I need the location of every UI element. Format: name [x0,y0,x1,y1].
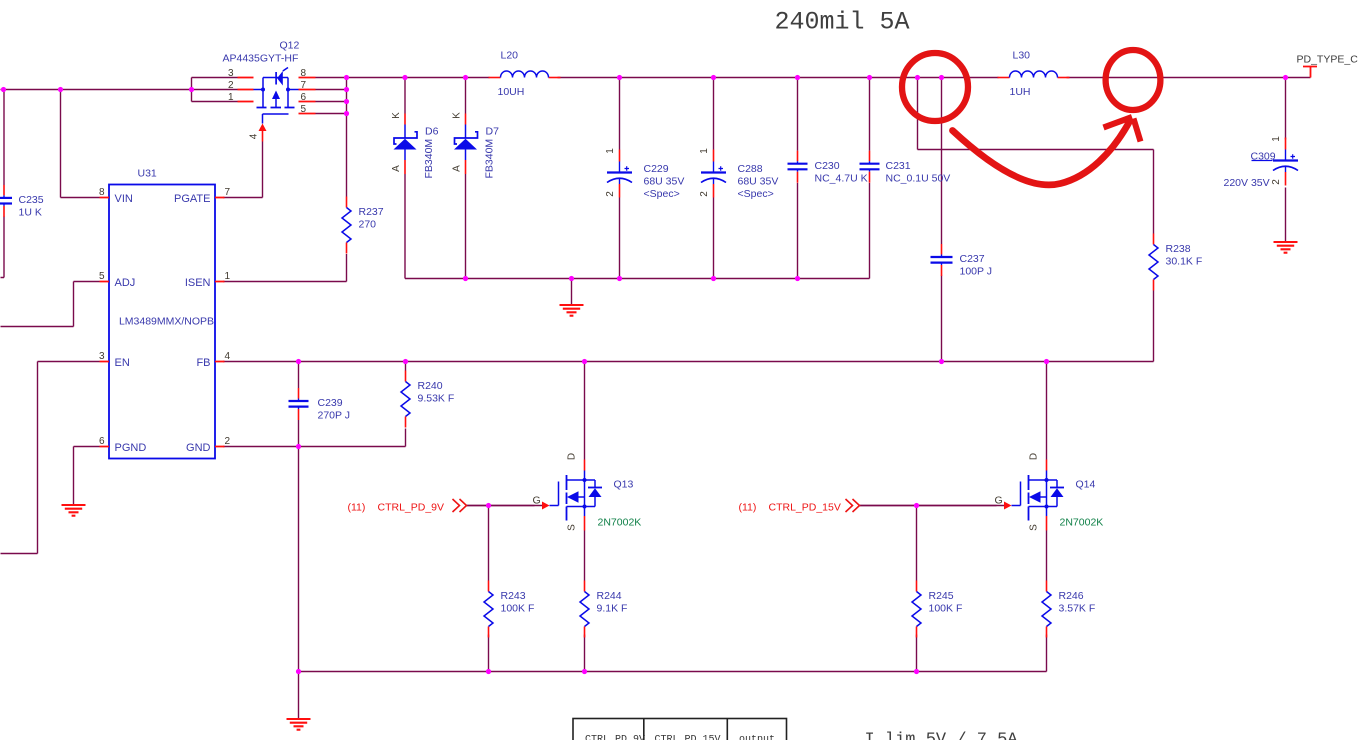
svg-text:68U 35V: 68U 35V [738,176,779,188]
resistor R244 9.1K F [580,581,627,638]
capacitor C309 220V 35V [1251,136,1299,186]
wire sense tap to R238 (node SW) [918,78,1154,150]
wire D6 column [404,78,406,279]
svg-text:C235: C235 [19,194,44,206]
svg-text:Q12: Q12 [280,40,300,52]
svg-text:ISEN: ISEN [185,277,211,289]
svg-text:FB: FB [196,357,210,369]
svg-text:R240: R240 [418,380,443,392]
svg-text:10UH: 10UH [498,86,525,98]
svg-text:D: D [1029,453,1040,460]
label 240mil 5A note [775,8,910,37]
wire Q13 drain riser [584,362,586,460]
wire ADJ exit left [1,282,100,327]
svg-text:2N7002K: 2N7002K [1060,517,1104,529]
svg-text:C231: C231 [886,160,911,172]
svg-text:5: 5 [301,104,307,115]
svg-text:3: 3 [99,351,105,362]
svg-text:G: G [995,495,1003,507]
svg-text:CTRL_PD_15V: CTRL_PD_15V [769,502,841,514]
wire GND line to R240 [223,446,406,448]
svg-text:9.53K F: 9.53K F [418,393,455,405]
wire CTRL_PD_15V gate net [860,506,997,581]
svg-text:R238: R238 [1166,243,1191,255]
wire D7 column [465,78,467,279]
svg-text:LM3489MMX/NOPB: LM3489MMX/NOPB [119,316,214,328]
svg-text:2: 2 [228,80,234,91]
svg-text:U31: U31 [138,168,157,180]
svg-text:270: 270 [359,219,377,231]
wire Q12 drain pin links [316,78,347,114]
svg-text:240mil 5A: 240mil 5A [775,8,910,37]
ground at output cap rail [560,305,584,316]
svg-text:4: 4 [249,133,260,139]
ground at PGND [62,505,86,516]
inductor L20 10UH [489,50,561,99]
wire ISEN to R237 [223,281,347,283]
svg-text:NC_4.7U K: NC_4.7U K [815,173,868,185]
wire CTRL_PD_9V gate net [467,506,535,581]
svg-text:D6: D6 [425,126,439,138]
wire C288 column [713,78,715,279]
svg-text:(11): (11) [739,502,757,514]
svg-text:3.57K F: 3.57K F [1059,603,1096,615]
svg-text:Q14: Q14 [1076,479,1096,491]
svg-text:1: 1 [228,92,234,103]
inductor L30 1UH [998,50,1070,99]
transistor Q14 2N7002K (NMOS) [860,453,1104,531]
svg-text:FB340M: FB340M [423,139,435,179]
wire Q12 drain bus down to R237 (x=346) [346,78,348,282]
svg-text:2: 2 [225,436,231,447]
node junctions input rail [1,87,194,92]
svg-text:PD_TYPE_C: PD_TYPE_C [1297,54,1359,66]
svg-text:K: K [452,112,463,119]
svg-text:CTRL_PD_9V: CTRL_PD_9V [585,735,645,740]
svg-text:PGND: PGND [115,442,147,454]
wire R244 bottom link [584,635,586,672]
node CTRL_PD_9V input (11) [348,499,467,514]
wire EN exit left [1,362,100,554]
svg-text:R244: R244 [597,590,622,602]
svg-text:7: 7 [225,187,231,198]
svg-text:8: 8 [99,187,105,198]
svg-text:CTRL_PD_15V: CTRL_PD_15V [655,735,721,740]
svg-text:VIN: VIN [115,193,133,205]
svg-text:EN: EN [115,357,130,369]
wire Q14 drain riser [1046,362,1048,460]
svg-text:FB340M: FB340M [484,139,496,179]
svg-text:ADJ: ADJ [115,277,136,289]
wire R245 bottom link [916,635,918,672]
wire top rail (y=77) [347,77,1311,79]
svg-text:A: A [391,165,402,172]
wire Q12 source pins tie (x=191) [192,78,238,102]
transistor Q12 AP4435GYT-HF (PMOS) [223,40,316,142]
svg-text:30.1K F: 30.1K F [1166,256,1203,268]
svg-text:7: 7 [301,80,307,91]
ground at bottom rail [287,719,311,730]
capacitor C239 270P J [289,388,351,422]
svg-text:D7: D7 [486,126,500,138]
resistor R238 30.1K F [1149,234,1202,291]
svg-text:L30: L30 [1013,50,1031,62]
svg-text:2: 2 [605,191,616,197]
wire R240 column [405,362,407,447]
node junctions FB net [296,359,1049,364]
svg-text:100P J: 100P J [960,266,993,278]
svg-text:270P J: 270P J [318,410,351,422]
svg-text:R245: R245 [929,590,954,602]
svg-text:4: 4 [225,351,231,362]
capacitor C235 1U K [0,185,44,219]
svg-text:(11): (11) [348,502,366,514]
node junctions Q12 drain bus [344,75,349,116]
truth table header [573,719,787,740]
svg-text:AP4435GYT-HF: AP4435GYT-HF [223,53,299,65]
svg-text:NC_0.1U 50V: NC_0.1U 50V [886,173,951,185]
svg-text:CTRL_PD_9V: CTRL_PD_9V [378,502,445,514]
node junctions gate nets [486,503,919,508]
node PD_TYPE_C output port [1297,54,1359,78]
svg-text:2N7002K: 2N7002K [598,517,642,529]
wire ground stub mid rail [571,279,573,305]
capacitor C229 68U 35V [605,148,684,200]
wire input rail left (y=89) [1,89,238,91]
svg-text:1: 1 [699,148,710,154]
svg-text:<Spec>: <Spec> [644,188,680,200]
diode D7 FB340M [452,112,500,179]
svg-text:6: 6 [99,436,105,447]
wire Q13 source to R244 [584,531,586,581]
wire R243 bottom link [488,635,490,672]
wire C229 column [619,78,621,279]
svg-text:PGATE: PGATE [174,193,210,205]
svg-text:1UH: 1UH [1010,86,1031,98]
svg-text:2: 2 [699,191,710,197]
svg-text:C229: C229 [644,163,669,175]
svg-text:1U K: 1U K [19,207,42,219]
wire R238 column [1153,150,1155,362]
wire FB net (y=361) [223,361,1154,363]
resistor R243 100K F [484,581,534,638]
wire C237 column [941,78,943,362]
wire Q14 source to R246 [1046,531,1048,581]
resistor R245 100K F [912,581,962,638]
capacitor C230 NC_4.7U K [788,151,868,185]
wire C231 column [869,78,871,279]
wire bottom return rail (y=671) [299,671,1047,673]
svg-text:S: S [1029,524,1040,531]
resistor R237 270 [342,197,384,254]
capacitor C288 68U 35V [699,148,778,200]
svg-text:8: 8 [301,68,307,79]
svg-text:5: 5 [99,271,105,282]
wire C239/ground column (x=298) [298,362,300,719]
resistor R246 3.57K F [1042,581,1095,638]
svg-text:100K F: 100K F [929,603,963,615]
resistor R240 9.53K F [401,371,454,428]
svg-text:220V 35V: 220V 35V [1224,177,1270,189]
svg-text:R246: R246 [1059,590,1084,602]
node junctions cap return rail [463,276,800,281]
capacitor C237 100P J [931,244,993,278]
svg-text:S: S [567,524,578,531]
op-amp U31 LM3489MMX/NOPB buck controller [99,168,231,459]
svg-text:Q13: Q13 [614,479,634,491]
wire R246 bottom link [1046,635,1048,672]
svg-text:R243: R243 [501,590,526,602]
diode D6 FB340M [391,112,439,179]
annotation circle 2 (after L30) [1106,50,1161,110]
svg-text:1: 1 [225,271,231,282]
wire C230 column [797,78,799,279]
node junction GND line [296,444,301,449]
svg-text:6: 6 [301,92,307,103]
svg-text:C239: C239 [318,397,343,409]
svg-text:C230: C230 [815,160,840,172]
svg-text:I_lim 5V / 7.5A: I_lim 5V / 7.5A [865,731,1019,740]
svg-text:<Spec>: <Spec> [738,188,774,200]
annotation arrow [953,117,1141,185]
svg-text:3: 3 [228,68,234,79]
svg-text:2: 2 [1271,179,1282,185]
svg-text:D: D [567,453,578,460]
ground at C309 [1274,242,1298,253]
node junctions top rail [402,75,1288,80]
wire C235 branch (x=3.5) [1,90,5,278]
svg-text:C288: C288 [738,163,763,175]
capacitor C231 NC_0.1U 50V [860,151,951,185]
node CTRL_PD_15V input (11) [739,499,860,514]
svg-text:68U 35V: 68U 35V [644,176,685,188]
svg-text:G: G [533,495,541,507]
wire VIN feed (x=60) [61,90,100,198]
svg-text:C237: C237 [960,253,985,265]
svg-text:output: output [739,735,775,740]
wire output cap return rail (y=278) [405,278,870,280]
wire C309 column [1285,78,1287,242]
wire PGND to ground [74,447,100,505]
svg-text:1: 1 [605,148,616,154]
svg-text:1: 1 [1271,136,1282,142]
svg-text:GND: GND [186,442,211,454]
svg-text:A: A [452,165,463,172]
svg-text:L20: L20 [501,50,519,62]
annotation circle 1 (switch node) [902,53,968,121]
svg-text:K: K [391,112,402,119]
svg-text:9.1K F: 9.1K F [597,603,628,615]
svg-text:R237: R237 [359,206,384,218]
transistor Q13 2N7002K (NMOS) [467,453,642,531]
label I_lim note [865,731,1019,740]
svg-text:100K F: 100K F [501,603,535,615]
wire PGATE to Q12 gate [223,142,263,198]
node junctions bottom rail [296,669,919,674]
capacitor C309 value label [1224,161,1273,190]
